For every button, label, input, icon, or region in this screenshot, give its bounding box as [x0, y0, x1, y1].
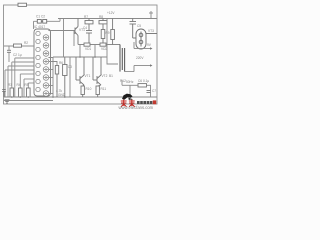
wire — [27, 83, 29, 88]
svg-text:R4: R4 — [17, 83, 21, 87]
wire right vertical — [107, 19, 118, 65]
wire — [48, 77, 53, 79]
wire — [73, 31, 75, 46]
svg-text:VT1: VT1 — [85, 74, 91, 78]
svg-text:R9: R9 — [106, 31, 110, 35]
svg-text:R12: R12 — [120, 79, 126, 83]
resistor R4 vertical bottom-left — [19, 88, 23, 97]
IC U1 body — [34, 29, 51, 96]
svg-text:VT3: VT3 — [148, 29, 154, 33]
value labels — [8, 11, 156, 240]
svg-text:C6 0.1μ: C6 0.1μ — [138, 79, 149, 83]
wire — [48, 69, 53, 71]
transformer T1 windings — [120, 45, 125, 72]
svg-text:R11: R11 — [101, 87, 107, 91]
wire — [7, 66, 9, 97]
wire — [48, 62, 57, 66]
transistor Q1 top — [75, 19, 78, 45]
node top-right plus terminal — [149, 11, 153, 18]
wire second rail — [58, 18, 157, 20]
svg-text:R7: R7 — [84, 15, 88, 19]
resistor R9 vertical — [101, 30, 105, 44]
resistor R3 vertical bottom-left — [10, 88, 14, 97]
wire — [48, 85, 53, 87]
wire — [23, 79, 25, 97]
svg-text:R10: R10 — [86, 87, 92, 91]
wire across at 57 — [53, 56, 107, 58]
IC U1 pin circles right column crossed — [43, 35, 49, 97]
wire — [11, 62, 13, 88]
diode VD1 — [84, 43, 90, 46]
resistor R12 vertical right — [111, 19, 115, 45]
svg-text:C1 C2: C1 C2 — [36, 15, 45, 19]
transistor Q3 — [93, 57, 101, 85]
svg-text:GND: GND — [58, 93, 66, 97]
logo icon black — [122, 94, 133, 100]
wire — [48, 93, 53, 95]
wire — [147, 85, 151, 97]
svg-text:www.elecfans.com: www.elecfans.com — [119, 105, 154, 110]
svg-text:B1: B1 — [109, 74, 113, 78]
svg-text:R8: R8 — [99, 15, 103, 19]
capacitor C2 — [43, 20, 47, 24]
resistor R7 vertical — [85, 19, 93, 24]
junction dots — [11, 56, 131, 98]
resistor R10 vertical — [81, 85, 84, 97]
capacitor C1 — [37, 20, 41, 24]
capacitor C3 middle box — [63, 57, 67, 97]
svg-text:VD1: VD1 — [85, 47, 91, 51]
resistor R5 vertical bottom-left — [27, 88, 31, 97]
resistor R6 vertical middle — [55, 66, 58, 98]
capacitor C6 small — [147, 91, 151, 93]
wire — [19, 74, 21, 88]
resistor R11 vertical — [96, 85, 101, 97]
wire — [4, 70, 6, 97]
wire — [28, 82, 34, 84]
capacitor C5 electrolytic top right — [130, 19, 137, 25]
svg-text:R3: R3 — [8, 83, 12, 87]
wire — [79, 45, 81, 58]
svg-text:+12V: +12V — [107, 11, 115, 15]
wire horizontal mid — [78, 44, 120, 46]
wire — [4, 45, 34, 47]
logo red trademark — [153, 100, 156, 104]
regulator U2 oval — [133, 24, 157, 49]
resistor R2 horizontal left — [14, 44, 22, 47]
diode VD2 — [100, 43, 106, 46]
svg-text:50Hz: 50Hz — [126, 80, 134, 84]
resistor R13 horizontal bottom right — [138, 84, 147, 87]
wire — [15, 57, 34, 59]
svg-text:VD2: VD2 — [101, 47, 107, 51]
svg-text:220V: 220V — [136, 56, 144, 60]
border frame wire — [4, 5, 158, 104]
svg-text:C4: C4 — [83, 26, 87, 30]
wire — [8, 65, 34, 67]
wire — [122, 84, 138, 86]
wire — [24, 78, 34, 80]
wire — [59, 19, 61, 22]
capacitor C4 electrolytic — [86, 24, 92, 43]
wire — [20, 73, 34, 75]
wire — [5, 69, 34, 71]
resistor R1 on top rail — [18, 3, 27, 6]
svg-text:C5: C5 — [137, 24, 141, 28]
IC U1 pin circles left column — [36, 31, 40, 91]
wire — [12, 61, 34, 63]
svg-text:R5: R5 — [25, 83, 29, 87]
wire transformer jog — [125, 42, 134, 72]
svg-text:C3: C3 — [68, 65, 72, 69]
capacitor C2 electrolytic left — [7, 50, 11, 52]
ground — [5, 100, 10, 103]
capacitor C8 left border — [2, 90, 6, 98]
svg-text:C2 1μ: C2 1μ — [13, 53, 22, 57]
svg-text:IC 4017: IC 4017 — [34, 25, 45, 29]
svg-text:C7: C7 — [152, 89, 156, 93]
wire — [48, 58, 53, 98]
wire — [129, 85, 131, 97]
left wire feeders — [4, 46, 34, 97]
wire — [94, 45, 96, 58]
svg-text:R2: R2 — [24, 41, 28, 45]
transistor Q2 — [76, 57, 84, 85]
wire to C1 C2 pair — [34, 20, 61, 22]
wire — [8, 46, 10, 62]
wire output upper — [134, 47, 153, 49]
wire — [33, 21, 35, 29]
bus wire bottom 2 — [4, 100, 53, 102]
wire middle vertical — [69, 57, 71, 97]
wire — [48, 19, 75, 58]
bus wire bottom 1 — [4, 96, 157, 98]
logo big red characters — [121, 100, 135, 107]
wire — [121, 80, 123, 85]
logo small dark characters — [137, 101, 152, 104]
svg-text:VT2: VT2 — [102, 74, 108, 78]
wire — [14, 58, 16, 97]
wire output lower — [134, 64, 153, 66]
resistor R8 vertical — [99, 19, 107, 30]
svg-text:R6: R6 — [59, 61, 63, 65]
